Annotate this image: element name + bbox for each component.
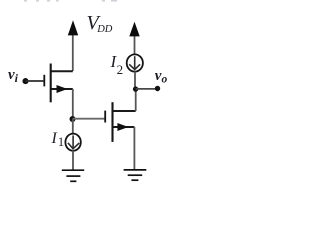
ground (left) [62,170,84,181]
wire: I1 to ground [72,150,74,170]
wire: M1 source drop [72,89,74,119]
label vo [155,69,167,86]
wire: M1 drain lead [51,70,73,72]
current source I1 circle [65,134,80,151]
transistor M2 channel bar [111,102,113,142]
node vo junction dot [133,86,138,91]
ground (right) [124,170,147,180]
node A junction dot [70,116,76,122]
transistor M1 gate bar [43,75,45,87]
wire: node A down to I1 [72,119,74,135]
node input terminal dot [22,78,28,84]
transistor M2 gate bar [104,111,106,123]
wire: M2 drain up to output node [135,89,137,111]
transistor M1 channel bar [50,64,52,103]
current source I2 supply arrow [129,22,139,55]
wire: node A to M2 gate [73,118,105,120]
wire: M2 drain lead [113,110,136,112]
wire: output wire [136,88,158,90]
label I1 [52,131,65,149]
node vo terminal dot [155,86,160,91]
label I2 [111,53,124,76]
wire: M2 source to ground [133,127,135,170]
current source I2 arrow [129,56,140,69]
wire: I2 down to output node [134,72,136,90]
label VDD [87,13,113,36]
current source I1 arrow [68,135,79,148]
cropped text remnants top edge [24,0,117,2]
transistor M1 source lead with arrow [51,85,73,93]
current source I2 circle [127,54,143,71]
wire: input gate wire [26,80,44,82]
label vi [8,68,18,84]
VDD supply arrow [68,20,78,71]
transistor M2 source lead with arrow [113,123,135,131]
